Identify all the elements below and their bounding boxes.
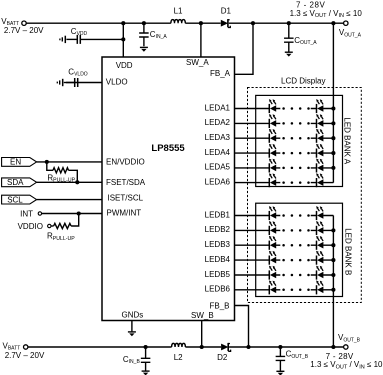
svg-text:LEDA1: LEDA1 bbox=[205, 103, 231, 112]
svg-text:LEDA3: LEDA3 bbox=[205, 133, 231, 142]
svg-text:LP8555: LP8555 bbox=[151, 143, 185, 154]
svg-text:RPULL-UP: RPULL-UP bbox=[47, 232, 75, 242]
svg-text:CIN_B: CIN_B bbox=[123, 355, 141, 365]
svg-text:LEDA6: LEDA6 bbox=[205, 177, 231, 186]
svg-text:CVDD: CVDD bbox=[71, 27, 88, 37]
svg-text:1.3 ≤ VOUT / VIN ≤ 10: 1.3 ≤ VOUT / VIN ≤ 10 bbox=[290, 9, 363, 19]
svg-text:VLDO: VLDO bbox=[106, 78, 128, 87]
svg-text:RPULL-UP: RPULL-UP bbox=[47, 173, 75, 183]
svg-text:D2: D2 bbox=[217, 353, 228, 362]
svg-text:SDA: SDA bbox=[7, 178, 24, 187]
svg-text:LEDA4: LEDA4 bbox=[205, 148, 231, 157]
svg-text:VDDIO: VDDIO bbox=[18, 222, 43, 231]
svg-text:LEDB5: LEDB5 bbox=[205, 270, 231, 279]
svg-text:SW_B: SW_B bbox=[191, 311, 214, 320]
svg-text:LCD Display: LCD Display bbox=[281, 76, 325, 85]
svg-text:LEDB2: LEDB2 bbox=[205, 225, 231, 234]
svg-text:ISET/SCL: ISET/SCL bbox=[108, 194, 144, 203]
svg-text:CVLDO: CVLDO bbox=[68, 67, 88, 77]
svg-text:LEDB4: LEDB4 bbox=[205, 255, 231, 264]
svg-text:LEDA5: LEDA5 bbox=[205, 163, 231, 172]
svg-text:VOUT_B: VOUT_B bbox=[338, 333, 361, 343]
svg-text:FSET/SDA: FSET/SDA bbox=[106, 178, 146, 187]
svg-text:LED BANK A: LED BANK A bbox=[342, 117, 351, 164]
svg-text:2.7V – 20V: 2.7V – 20V bbox=[4, 26, 44, 35]
svg-text:INT: INT bbox=[20, 209, 33, 218]
svg-text:LEDB1: LEDB1 bbox=[205, 210, 231, 219]
svg-text:VOUT_A: VOUT_A bbox=[339, 28, 362, 38]
svg-text:SCL: SCL bbox=[7, 195, 23, 204]
svg-text:EN/VDDIO: EN/VDDIO bbox=[106, 157, 145, 166]
svg-text:PWM/INT: PWM/INT bbox=[107, 209, 142, 218]
svg-text:D1: D1 bbox=[221, 7, 232, 16]
svg-text:COUT_B: COUT_B bbox=[286, 350, 309, 360]
svg-text:LEDB6: LEDB6 bbox=[205, 285, 231, 294]
svg-text:VDD: VDD bbox=[116, 61, 133, 70]
svg-text:GNDs: GNDs bbox=[122, 311, 144, 320]
svg-text:2.7V – 20V: 2.7V – 20V bbox=[5, 351, 45, 360]
svg-text:L1: L1 bbox=[174, 7, 183, 16]
svg-text:LEDB3: LEDB3 bbox=[205, 240, 231, 249]
svg-text:FB_B: FB_B bbox=[209, 302, 229, 311]
svg-text:COUT_A: COUT_A bbox=[294, 36, 317, 46]
svg-text:L2: L2 bbox=[174, 353, 183, 362]
svg-text:SW_A: SW_A bbox=[186, 58, 209, 67]
svg-text:1.3 ≤ VOUT / VIN ≤ 10: 1.3 ≤ VOUT / VIN ≤ 10 bbox=[310, 360, 383, 370]
svg-text:LED BANK B: LED BANK B bbox=[343, 228, 352, 275]
svg-text:LEDA2: LEDA2 bbox=[205, 118, 231, 127]
svg-text:CIN_A: CIN_A bbox=[150, 30, 168, 40]
svg-text:EN: EN bbox=[10, 158, 21, 167]
svg-text:FB_A: FB_A bbox=[210, 69, 231, 78]
